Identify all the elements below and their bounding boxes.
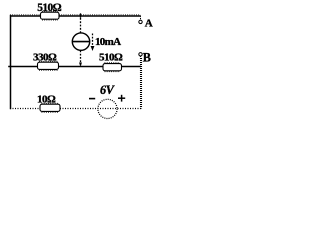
svg-text:10mA: 10mA [95,36,121,48]
svg-text:510Ω: 510Ω [37,2,61,14]
svg-text:B: B [143,51,151,65]
svg-text:510Ω: 510Ω [99,52,123,64]
svg-text:A: A [145,18,153,30]
svg-text:330Ω: 330Ω [33,51,57,63]
svg-text:6V: 6V [100,83,115,97]
svg-text:10Ω: 10Ω [37,93,56,105]
